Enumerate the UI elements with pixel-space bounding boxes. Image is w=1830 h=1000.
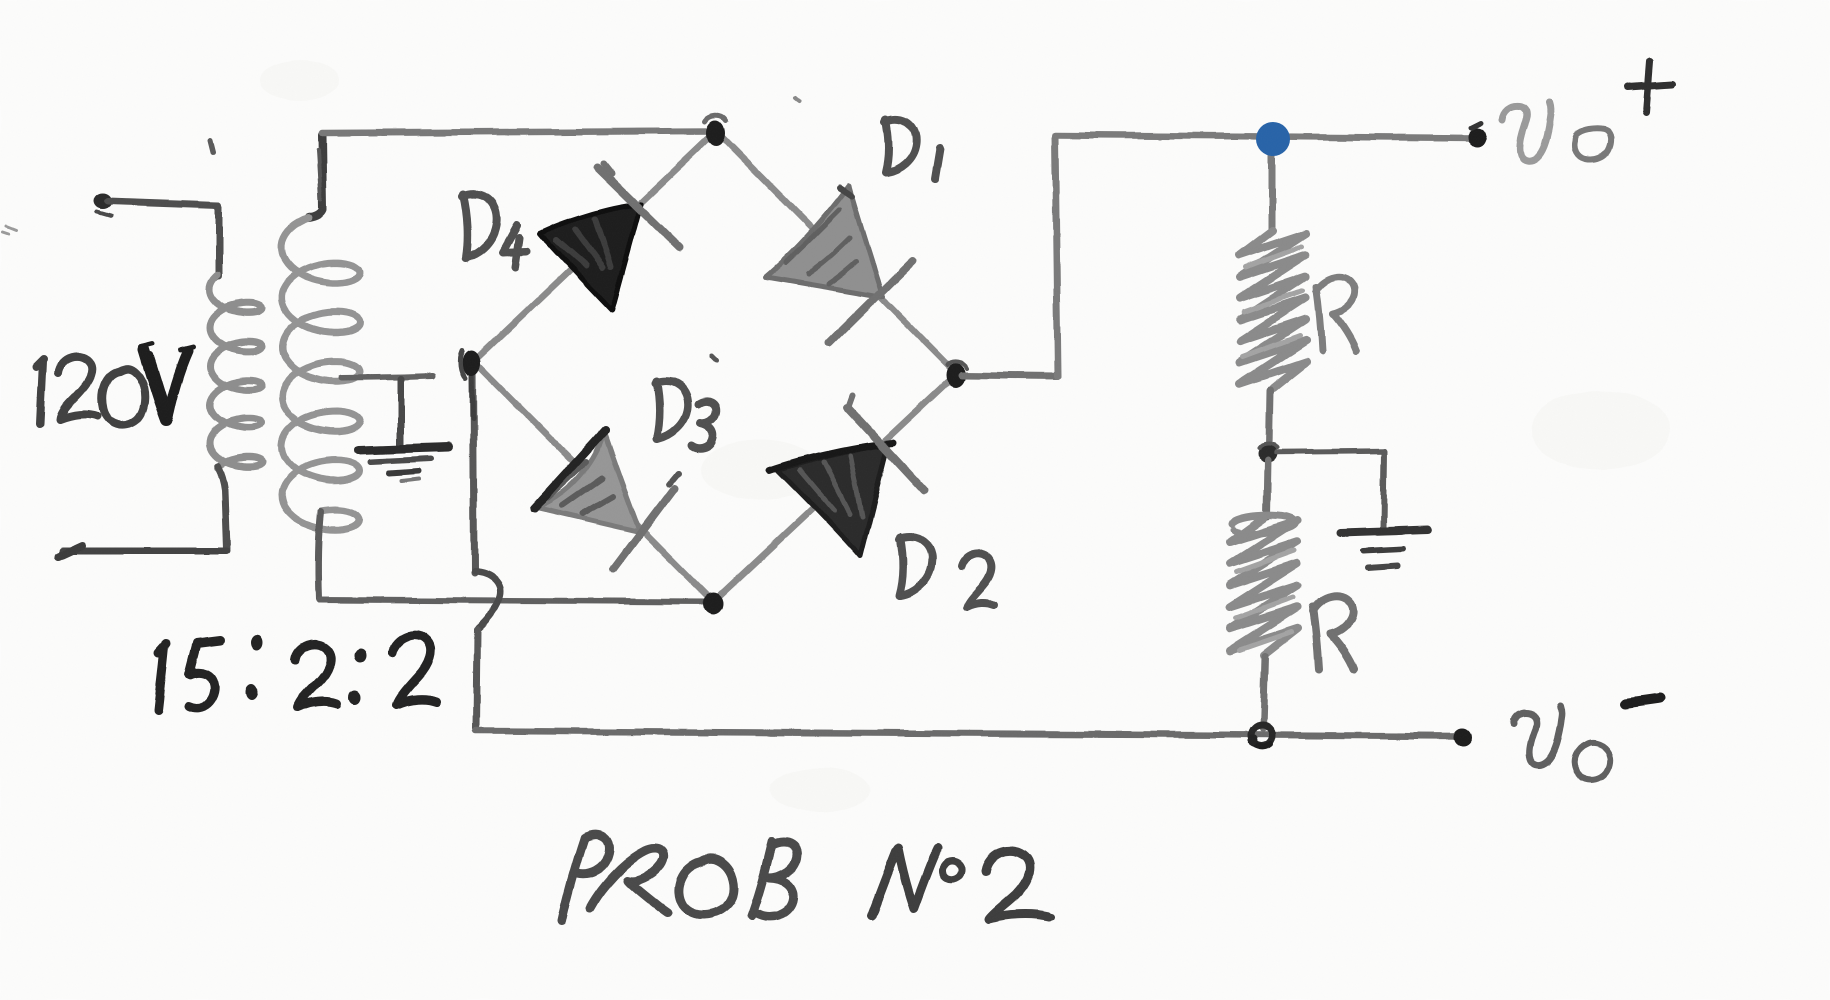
wire: primary bottom horizontal [62,548,227,555]
diode D2 (dark filled) [770,395,925,556]
label R (lower) [1313,596,1355,669]
stray dot left margin [2,226,16,234]
ground (divider midpoint) [1339,529,1429,532]
terminal dot (primary top) [93,193,111,209]
label Vo- [1514,699,1661,779]
wire: primary bottom vertical [218,466,227,549]
wire: R2 to bottom rail [1263,656,1265,729]
wire: top-left corner down to secondary [309,135,323,218]
node: bridge bottom [703,593,723,615]
label 15:2:2 [158,635,436,710]
wire: left node vertical down [473,364,474,573]
inductor L1 (primary winding) [210,275,262,468]
cathode bar D1 [830,261,913,343]
wire: junction down to R2 [1267,460,1268,516]
wire hop over bottom horizontal [474,571,500,629]
wire: top horizontal (left segment) [322,131,716,133]
node: bridge right [946,363,966,387]
wire: bridge branch top-right [716,131,956,374]
diode D4 (dark filled) [540,164,680,310]
label 120V [36,357,145,425]
label D1 [885,119,940,179]
dark top edge D2 [770,443,893,470]
node: bridge left [463,350,481,376]
tick at primary bottom end [58,546,82,557]
label D4 [462,194,527,267]
inductor L2 (secondary winding) [282,218,360,530]
node (blue) on top rail [1256,122,1290,156]
stray dot above D3 [712,356,717,361]
stray pencil tick above primary [210,140,213,152]
cathode bar D3 [614,489,674,569]
wire: continue vertical to bottom rail [476,629,477,729]
junction node (mid divider) [1258,443,1278,463]
resistor R (upper) [1240,231,1306,388]
wire: primary top [107,201,219,205]
stray dot above D1 [795,98,799,101]
wire: riser vertical [1055,136,1058,376]
wire: bridge branch bottom-left [474,361,713,602]
label R (upper) [1316,277,1356,351]
label PROB N°2 [561,835,1052,921]
ground (secondary center tap) [358,447,448,450]
diode D1 (gray filled) [766,186,913,343]
resistor R (lower) [1232,515,1296,533]
wire: bridge branch top-left [474,131,716,361]
diode D3 (gray filled, striped) [534,431,678,569]
wire: bottom rail [476,731,1461,736]
terminal Vo+ [1469,127,1487,147]
wire: secondary bottom [318,512,321,599]
wire: bridge branch bottom-right [713,374,956,602]
wire: junction to ground (horizontal then down) [1277,451,1384,452]
cathode bar D2 [847,407,925,491]
label D2 [899,537,994,607]
label D3 [656,381,716,449]
center tap wire [342,376,432,378]
junction node (bottom rail) [1251,725,1273,747]
node: bridge top [707,120,725,146]
wire: bottom horizontal from secondary to bridge bottom node [319,600,713,602]
wire: R to junction [1269,390,1270,446]
wire: right node to riser [962,375,1058,376]
label Vo+ [1503,62,1672,160]
wire: top rail right segment [1055,135,1477,138]
dark anode edge D3 [534,431,605,509]
wire: primary top vertical [216,205,223,276]
wire: blue node down to R [1269,154,1276,231]
cathode bar D4 [598,168,680,248]
terminal Vo- [1453,728,1471,746]
